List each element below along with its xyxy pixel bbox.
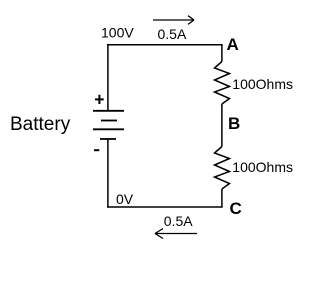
wire left upper (battery + lead)	[107, 45, 109, 112]
svg-text:B: B	[228, 114, 240, 133]
svg-text:100Ohms: 100Ohms	[232, 76, 293, 92]
svg-text:Battery: Battery	[10, 114, 71, 135]
current arrow bottom (0.5A, pointing left)	[155, 229, 197, 239]
svg-text:C: C	[230, 199, 242, 218]
current arrow top (0.5A, pointing right)	[153, 16, 194, 25]
resistor R2	[215, 147, 230, 190]
wire right lower (R2 to C)	[221, 189, 223, 208]
resistor R1	[215, 62, 230, 105]
wire bottom (node C rail)	[107, 206, 223, 208]
battery B1 plate 2 (short)	[101, 120, 117, 122]
svg-text:0.5A: 0.5A	[164, 213, 193, 229]
svg-text:100V: 100V	[101, 25, 134, 41]
svg-text:0.5A: 0.5A	[158, 26, 187, 42]
battery - terminal mark	[94, 149, 99, 151]
wire left lower (battery - lead)	[107, 139, 109, 208]
wire right upper (A to R1)	[221, 45, 223, 62]
battery B1 plate 4 (short, -)	[100, 138, 116, 140]
svg-text:A: A	[227, 35, 239, 54]
wire right middle (R1 to R2 through node B)	[221, 104, 223, 147]
battery + terminal mark	[95, 95, 104, 104]
wire top (node A rail)	[107, 44, 223, 46]
battery B1 plate 1 (long, +)	[93, 110, 124, 112]
svg-text:0V: 0V	[116, 191, 134, 207]
svg-text:100Ohms: 100Ohms	[232, 159, 293, 175]
battery B1 plate 3 (long)	[93, 128, 124, 130]
